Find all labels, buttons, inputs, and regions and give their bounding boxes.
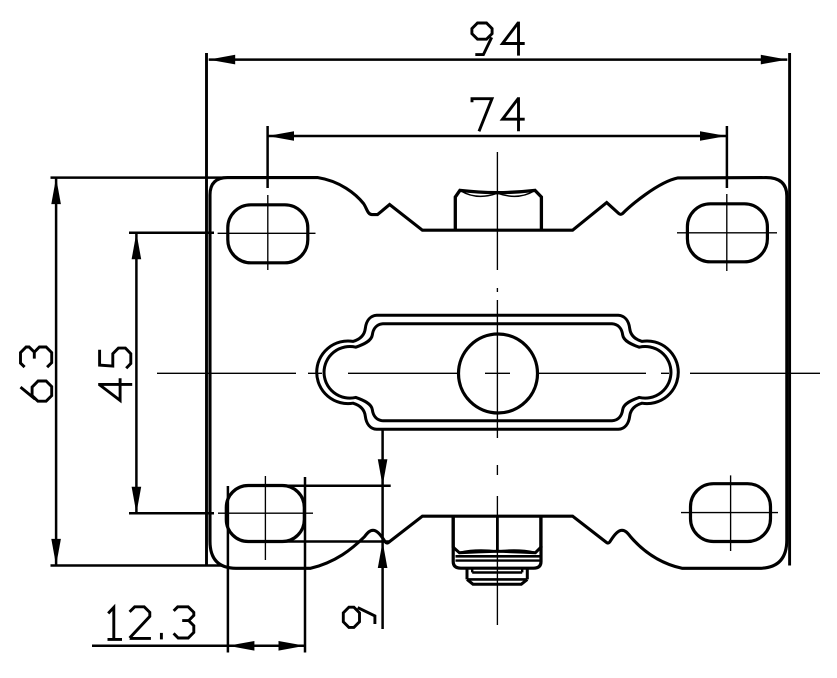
top bolt chamfer arcs <box>461 191 534 196</box>
vertical main centerline <box>496 152 498 625</box>
central boss outer contour <box>317 315 679 429</box>
dimension 94 <box>207 53 790 566</box>
dimension texts (stroke glyphs) <box>21 22 525 640</box>
text 63 <box>21 347 52 401</box>
text 74 <box>472 97 525 131</box>
centerlines <box>157 152 820 625</box>
bottom bolt washer lines <box>456 555 540 558</box>
text 9 <box>343 607 375 627</box>
bottom bolt facet line <box>496 516 499 552</box>
bottom bolt head <box>453 516 541 548</box>
central boss inner contour <box>324 324 671 421</box>
top bolt head <box>455 190 541 230</box>
slot hole bottom-right <box>691 484 771 542</box>
slot hole top-right <box>687 204 767 262</box>
text 45 <box>98 348 132 400</box>
crosshair bottom-right slot <box>681 475 778 551</box>
bottom bolt chamfer arcs <box>460 550 535 552</box>
dimension 74 <box>268 126 727 188</box>
central bore circle <box>459 334 538 413</box>
dimension 9 <box>265 429 391 629</box>
bottom bolt stem <box>467 568 527 579</box>
dimension 12.3 <box>92 477 305 653</box>
crosshair top-right slot <box>677 194 777 271</box>
plate outline <box>210 178 787 569</box>
crosshair bottom-left slot <box>218 476 313 560</box>
slot hole bottom-left <box>226 486 304 542</box>
horizontal main centerline <box>157 372 820 374</box>
slot hole top-left <box>228 205 308 263</box>
crosshair top-left slot <box>218 195 316 270</box>
text 94 <box>472 22 525 56</box>
text 12.3 <box>108 607 194 640</box>
dimension 63 <box>51 178 230 566</box>
dimension 45 <box>129 233 214 513</box>
